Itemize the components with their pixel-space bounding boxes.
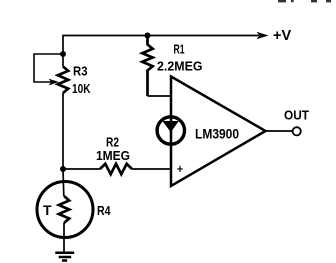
node +V arrowhead — [257, 32, 269, 39]
node wiper arrowhead — [49, 79, 60, 86]
op-amp U1 LM3900 triangle — [171, 77, 266, 187]
wire output — [266, 130, 293, 132]
svg-text:R1: R1 — [174, 42, 185, 57]
wire junction into thermistor — [62, 169, 65, 196]
wire R2 to op-amp input — [132, 168, 171, 170]
op-amp current-mirror circle — [157, 117, 184, 144]
resistor R2 (1MEG) — [100, 164, 132, 174]
node junction dot rail-R3 — [60, 51, 66, 57]
node OUT terminal circle — [293, 127, 301, 135]
wire thermistor to ground — [63, 223, 65, 253]
thermistor T circle — [37, 182, 93, 238]
node junction dot rail-R1 — [145, 33, 151, 39]
svg-text:R4: R4 — [97, 203, 111, 218]
resistor R1 (2.2MEG) — [142, 36, 152, 96]
svg-text:1MEG: 1MEG — [96, 148, 130, 163]
resistor R4 (thermistor element) — [59, 196, 69, 223]
resistor R3 (10K potentiometer body) — [58, 67, 68, 94]
op-amp current-mirror arrow — [162, 121, 178, 132]
svg-text:T: T — [43, 202, 52, 218]
op-amp plus input mark — [177, 166, 183, 172]
wire left branch vertical — [62, 35, 64, 67]
svg-text:2.2MEG: 2.2MEG — [157, 59, 203, 74]
svg-text:+V: +V — [273, 28, 291, 44]
node lower junction dot — [60, 166, 66, 172]
wire junction to R2 — [63, 168, 100, 170]
wire top supply rail — [63, 35, 259, 37]
wire potentiometer wiper loop — [34, 54, 63, 82]
wire R1 bottom to op-amp input — [148, 95, 172, 97]
svg-text:10K: 10K — [72, 81, 91, 96]
svg-text:LM3900: LM3900 — [195, 126, 239, 142]
svg-text:R3: R3 — [73, 64, 88, 79]
cropped text remnants top edge — [278, 0, 331, 2]
ground — [55, 253, 74, 261]
wire R3 to lower junction — [62, 93, 64, 169]
svg-text:OUT: OUT — [284, 108, 309, 123]
